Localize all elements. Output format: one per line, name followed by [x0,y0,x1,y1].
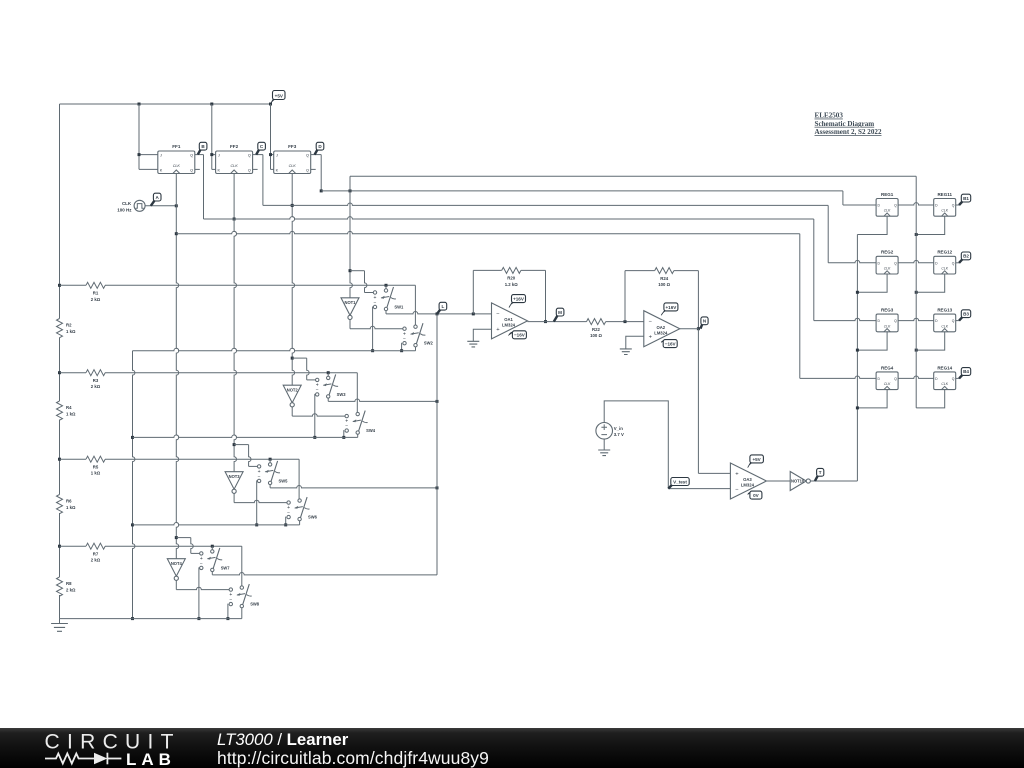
junction ladder tap [58,545,61,548]
svg-text:K: K [218,168,221,172]
svg-text:LM324: LM324 [502,323,516,328]
supply 0V OA3 [748,491,762,499]
wire to K pin [139,168,158,170]
svg-text:SW1: SW1 [394,305,404,310]
wire SW1 blade feed [385,285,387,289]
wire REG1 Q to REG11 [898,203,934,205]
wire to K pin [271,168,274,170]
switch SW8 [229,584,260,608]
svg-text:2 kΩ: 2 kΩ [91,297,101,302]
register REG12 [934,250,956,274]
junction net A row4 tap [175,536,178,539]
wire net A corner [799,234,801,379]
wire net L row [386,312,492,314]
svg-text:3.7 V: 3.7 V [614,432,624,437]
svg-text:CLK: CLK [884,267,891,271]
node D label [315,142,324,154]
wire R24 feedback right [697,271,699,329]
svg-text:−: − [345,424,348,430]
svg-text:R4: R4 [66,405,72,410]
svg-text:CLK: CLK [941,382,948,386]
svg-text:NOT10: NOT10 [791,479,805,484]
wire net C vertical [292,174,294,386]
wire SW2 minus to ground [401,343,403,351]
node T label [815,468,824,481]
resistor R4 [57,401,76,420]
wire net C corner [827,205,829,262]
node B1 label [959,194,971,205]
wire net D descent [320,155,322,191]
power rail +5V [60,103,271,105]
junction ground bus [131,523,134,526]
svg-text:R6: R6 [66,499,72,504]
svg-text:−: − [374,300,377,306]
resistor R8 [57,577,76,596]
wire ground bus row 1 [133,348,416,350]
junction L collector [436,400,439,403]
svg-text:REG2: REG2 [881,250,894,255]
switch SW4 [345,411,376,435]
svg-text:100 Ω: 100 Ω [658,282,670,287]
svg-text:R20: R20 [507,276,515,281]
svg-text:FF3: FF3 [288,144,297,149]
svg-text:Q: Q [952,377,955,381]
flip-flop FF3 [274,144,311,174]
ground ladder [51,624,68,632]
wire SW3 minus to ground [314,394,317,437]
supply +16V OA2 [661,303,678,315]
wire FF2 Q [253,154,263,156]
svg-text:CLK: CLK [289,164,297,168]
wire REG11 clock [916,216,945,234]
svg-text:SW2: SW2 [424,341,434,346]
junction D riser [915,233,918,236]
wire net D corner [842,191,844,205]
wire row to SW4 blade [356,373,358,413]
svg-text:0V: 0V [753,493,760,498]
svg-text:Q: Q [894,261,897,265]
wire NOT4 output to SW8 [176,587,229,589]
svg-text:+16V: +16V [665,305,677,310]
wire V_in to V_test [604,401,668,489]
wire +5V to J/K [211,104,213,169]
wire net T [810,480,857,482]
svg-text:NOT3: NOT3 [229,474,241,479]
node V_test label [668,478,689,489]
svg-text:B3: B3 [963,311,969,316]
wire net T riser [856,235,858,482]
wire R20 lead [473,269,501,271]
wire row lead [60,372,87,374]
wire ground distribution vertical [133,351,135,619]
wire SW7 minus to ground [198,568,201,619]
svg-text:R7: R7 [93,552,99,557]
wire NOT3 output [233,494,235,503]
wire REG12 Q [956,262,961,264]
node N label [701,317,709,329]
wire SW3 control [307,379,316,381]
wire REG13 Q [956,320,961,322]
svg-text:2 kΩ: 2 kΩ [91,384,101,389]
svg-text:Q: Q [248,168,251,172]
wire NOT3 output to SW6 [234,500,287,502]
wire +5V to J/K [270,104,272,169]
svg-text:SW3: SW3 [337,392,347,397]
svg-text:−: − [316,388,319,394]
svg-text:R22: R22 [592,327,600,332]
voltage source V_in 3.7V [596,423,624,440]
svg-text:Q: Q [190,154,193,158]
wire SW6 common stub [299,521,301,525]
wire row to switches [105,458,299,460]
svg-text:−16V: −16V [514,333,526,338]
wire R24 to output [674,270,699,272]
wire net B corner [813,219,815,321]
svg-text:REG12: REG12 [937,250,952,255]
svg-text:Q: Q [894,204,897,208]
clock source CLK 100 Hz [117,200,145,212]
svg-text:Q: Q [952,319,955,323]
svg-text:R24: R24 [660,276,668,281]
junction J tap [210,153,213,156]
wire REG11 Q [956,204,961,206]
ladder rail [59,104,61,619]
resistor R22 [587,319,606,339]
wire row to SW2 blade [414,285,416,325]
CircuitLab logo [45,731,181,768]
wire SW5 minus to ground [256,481,259,525]
wire row lead [60,458,87,460]
wire net B descent [203,155,205,219]
register REG13 [934,308,956,332]
junction SW6 minus ground [284,523,287,526]
junction feedback tap R24 [624,320,627,323]
ground OA1 [467,341,479,347]
svg-text:CLK: CLK [122,201,132,206]
svg-text:R2: R2 [66,323,72,328]
supply +5V OA3 [748,455,764,468]
junction blade feed [327,371,330,374]
wire net B vertical [234,219,236,472]
supply -16V OA2 [661,340,677,348]
junction ladder tap [58,284,61,287]
svg-text:K: K [276,168,279,172]
svg-text:Q: Q [190,168,193,172]
switch SW3 [316,374,347,398]
junction T riser [856,291,859,294]
wire row 4 output [212,573,437,575]
junction ground bus bottom [131,617,134,620]
wire row lead [60,284,87,286]
junction node L [436,312,439,315]
power +5V label [271,91,286,105]
wire OA2 output [680,328,699,330]
node B2 label [959,252,971,263]
resistor R7 [86,543,105,563]
svg-text:SW8: SW8 [250,602,260,607]
svg-text:−: − [287,510,290,516]
svg-text:J: J [160,154,162,158]
switch SW1 [373,287,404,311]
svg-text:B1: B1 [963,196,969,201]
wire SW7 blade feed [211,546,213,550]
svg-text:FF2: FF2 [230,144,239,149]
svg-text:Schematic Diagram: Schematic Diagram [815,120,875,128]
junction net D split [349,189,352,192]
junction ladder tap [58,458,61,461]
svg-text:Q: Q [306,154,309,158]
svg-text:REG1: REG1 [881,192,894,197]
svg-text:http://circuitlab.com/chdjfr4w: http://circuitlab.com/chdjfr4wuu8y9 [217,748,489,768]
svg-text:CLK: CLK [884,382,891,386]
junction SW2 minus ground [400,349,403,352]
svg-text:1 kΩ: 1 kΩ [91,471,101,476]
junction J tap [269,153,272,156]
wire NOT1 output to SW2 [350,326,403,328]
wire SW6 minus to ground [285,517,287,525]
junction T riser [856,406,859,409]
svg-text:1 kΩ: 1 kΩ [66,329,76,334]
flip-flop FF2 [216,144,253,174]
inverter NOT10 [790,472,810,491]
wire NOT2 output to SW4 [292,414,345,416]
wire M to OA2 [606,321,644,323]
svg-text:+5V: +5V [752,457,761,462]
node B3 label [959,310,971,321]
wire SW7 control jog h [176,537,191,539]
svg-text:OA3: OA3 [743,477,752,482]
wire net C descent [262,155,264,206]
resistor R24 [655,268,674,288]
svg-text:REG14: REG14 [937,365,952,370]
junction blade feed [385,284,388,287]
wire net L collector [436,314,438,575]
resistor R20 [502,267,521,287]
svg-text:+: + [735,472,739,478]
svg-text:Assessment 2, S2 2022: Assessment 2, S2 2022 [815,128,882,136]
wire row 3 output [270,486,437,488]
inverter NOT2 [283,385,301,407]
wire SW4 minus to ground [343,431,345,438]
wire SW8 minus to ground [227,604,229,619]
svg-text:−16V: −16V [665,342,677,347]
svg-text:100 Hz: 100 Hz [117,208,132,213]
svg-text:OA1: OA1 [504,317,513,322]
svg-text:REG11: REG11 [937,192,952,197]
op-amp OA3 [730,463,766,499]
wire SW4 common stub [357,434,359,437]
junction D riser [915,349,918,352]
svg-text:R1: R1 [93,291,99,296]
wire SW1 control jog h [350,270,365,272]
svg-text:2 kΩ: 2 kΩ [66,587,76,592]
wire SW5 common stub [269,485,271,488]
wire REG4 Q to REG14 [898,376,934,378]
resistor R1 [86,282,105,302]
wire Qbar stub [311,168,316,170]
svg-text:L: L [441,304,444,309]
wire SW1 control [365,292,374,294]
svg-text:SW6: SW6 [308,515,318,520]
wire SW5 control jog v [249,445,251,467]
wire OA2 + input to ground [626,336,644,349]
wire net A bus [176,231,800,233]
svg-text:REG3: REG3 [881,308,894,313]
wire SW1 minus to ground [372,307,375,351]
wire REG3 clock [857,332,887,350]
junction SW1 minus ground [371,349,374,352]
supply -16V OA1 [509,331,526,339]
svg-text:+16V: +16V [513,297,525,302]
wire to J pin [271,154,274,156]
wire SW3 blade feed [327,373,329,377]
wire net D vertical [350,176,352,297]
svg-text:1.2 kΩ: 1.2 kΩ [505,282,519,287]
wire net A vertical [176,174,178,559]
svg-text:CLK: CLK [884,209,891,213]
svg-text:R5: R5 [93,465,99,470]
svg-text:NOT2: NOT2 [287,387,299,392]
wire net N vertical [697,329,699,474]
switch SW2 [403,323,434,347]
footer text [217,730,489,768]
wire V_in to ground [603,439,605,450]
wire N to OA3 + [698,472,730,474]
wire REG12 clock [916,274,945,292]
svg-text:2 kΩ: 2 kΩ [91,558,101,563]
node A label [151,193,161,206]
svg-text:−: − [403,336,406,342]
wire net D riser [915,176,917,408]
wire OA3 output [766,480,790,482]
wire net B bus [204,217,814,219]
register REG14 [934,365,956,389]
wire V_test to OA3 - [668,488,730,490]
svg-text:Q: Q [894,377,897,381]
wire row to switches [105,284,415,286]
wire ground bus row 3 [133,523,300,525]
wire REG2 clock [857,274,887,292]
supply +16V OA1 [509,295,526,308]
svg-text:R3: R3 [93,378,99,383]
junction SW3 minus ground [313,436,316,439]
resistor R2 [57,319,76,338]
svg-text:CLK: CLK [941,209,948,213]
wire SW7 common stub [211,572,213,575]
wire R24 lead [625,270,655,272]
wire to J pin [139,154,158,156]
svg-text:CLK: CLK [173,164,181,168]
svg-text:−: − [735,487,739,493]
wire ground bus row 2 [133,435,358,437]
wire row to SW6 blade [298,459,300,499]
wire net C bus [263,203,828,205]
svg-text:J: J [218,154,220,158]
wire SW5 control [249,465,258,467]
wire row lead [60,545,87,547]
node B label [198,142,207,154]
junction OA1 output feedback [544,320,547,323]
junction net D row1 tap [349,269,352,272]
wire REG2 Q to REG12 [898,260,934,262]
svg-text:NOT4: NOT4 [171,561,183,566]
wire NOT4 output [175,581,177,590]
wire SW7 control [191,552,200,554]
wire SW3 common stub [327,398,329,401]
svg-text:LM324: LM324 [654,330,668,335]
svg-text:Q: Q [952,204,955,208]
wire SW2 common stub [415,347,417,351]
junction ground bus [131,436,134,439]
junction ladder tap [58,371,61,374]
node C label [256,142,265,154]
svg-text:+5V: +5V [275,93,284,98]
wire row to switches [105,372,357,374]
junction +5V rail [138,103,141,106]
svg-text:Q: Q [894,319,897,323]
resistor R6 [57,495,76,514]
wire net M [528,321,587,323]
wire NOT1 output [349,320,351,329]
wire row to switches [105,545,242,547]
junction blade feed [269,458,272,461]
junction OA2 output feedback [697,327,700,330]
svg-text:NOT1: NOT1 [345,300,357,305]
wire SW1 control jog v [365,271,367,293]
svg-text:LT3000 / Learner: LT3000 / Learner [217,730,349,749]
op-amp OA2 [644,311,680,347]
junction J tap [138,153,141,156]
wire ground stem [59,619,61,624]
svg-text:T: T [819,470,822,475]
wire FF3 Q [311,154,322,156]
wire Qbar stub [195,168,200,170]
inverter NOT1 [341,298,359,320]
wire +5V to J/K [138,104,140,169]
svg-text:SW5: SW5 [279,478,289,483]
junction blade feed [211,545,214,548]
junction T riser [856,349,859,352]
svg-text:100 Ω: 100 Ω [590,333,602,338]
wire SW7 control jog v [191,538,193,554]
wire R20 to output [521,269,546,271]
wire REG14 Q [956,377,961,379]
junction SW7 minus ground [197,617,200,620]
wire net D bus to REG1 [321,190,843,192]
svg-text:LAB: LAB [126,750,176,768]
wire REG4 clock [857,390,887,408]
wire FF2 clock [233,174,235,220]
junction SW4 minus ground [342,436,345,439]
svg-text:−: − [258,474,261,480]
register REG11 [934,192,956,216]
wire row to SW8 blade [241,546,243,586]
register REG4 [876,365,898,389]
wire CLK to FF1 clock [145,205,176,207]
inverter NOT4 [167,559,185,581]
switch SW6 [287,497,318,521]
wire REG1 clock [857,216,887,234]
wire SW3 control jog v [307,358,309,380]
svg-text:CLK: CLK [231,164,239,168]
footer bar [0,728,1024,768]
wire bus to REG4 [800,376,876,378]
svg-text:REG4: REG4 [881,365,894,370]
junction +5V rail [269,103,272,106]
junction SW5 minus ground [255,523,258,526]
junction D riser [915,291,918,294]
node M label [554,308,564,321]
